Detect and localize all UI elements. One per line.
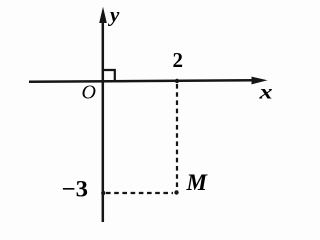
node M dot xyxy=(174,190,178,194)
node (2,0) dot xyxy=(175,79,179,83)
right-angle mark at origin xyxy=(103,70,115,81)
wire dashed horizontal from (0,-3) to M xyxy=(106,192,173,194)
y-axis arrowhead xyxy=(99,7,107,23)
wire x-axis xyxy=(29,80,254,82)
svg-text:O: O xyxy=(82,82,96,104)
wire dashed vertical from (2,0) to M xyxy=(176,84,178,192)
svg-text:−3: −3 xyxy=(62,177,89,202)
svg-text:x: x xyxy=(258,80,272,104)
svg-text:2: 2 xyxy=(173,48,184,72)
node (0,-3) dot xyxy=(101,191,105,195)
x-axis arrowhead xyxy=(252,77,268,85)
wire y-axis xyxy=(102,16,105,222)
svg-text:M: M xyxy=(186,170,209,195)
svg-text:y: y xyxy=(107,3,120,27)
